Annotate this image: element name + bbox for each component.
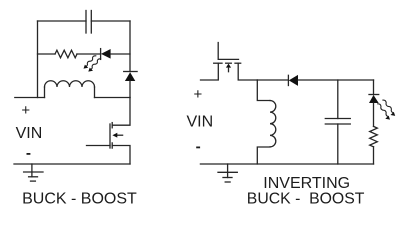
diode D3 (points left, on rail) <box>288 75 298 86</box>
inductor L1 <box>45 81 95 98</box>
wire: left circuit top rail (left of C1) <box>38 20 87 22</box>
Q1 drain segment tick <box>111 123 113 128</box>
svg-text:+: + <box>194 86 203 103</box>
inductor L2 (vertical) <box>257 80 276 164</box>
svg-text:+: + <box>21 102 30 119</box>
Q2 gate stub from top <box>218 43 238 60</box>
Q1 source lead <box>112 146 130 165</box>
label VIN- (left) <box>27 153 31 155</box>
LED D1 (points left) <box>101 49 111 60</box>
resistor R2 (vertical) <box>370 126 378 146</box>
Q1 gate bar <box>109 124 111 148</box>
wire: right circuit bottom rail <box>200 163 373 165</box>
ground (right circuit) <box>218 164 237 182</box>
Q1 body arrow <box>116 134 123 136</box>
wire: right vertical rail top (to diode cathode) <box>129 21 131 72</box>
Q2 source lead to VIN+ <box>201 63 219 80</box>
svg-text:BUCK - BOOST: BUCK - BOOST <box>22 190 137 207</box>
Q2 channel segment right <box>235 62 241 64</box>
svg-text:VIN: VIN <box>187 114 214 131</box>
Q2 channel segment left <box>214 62 222 64</box>
Q1 gate lead <box>87 145 111 147</box>
wire: left vertical rail <box>37 21 39 98</box>
wire: rail inductor junction to diode <box>257 79 288 81</box>
Q2 body arrow (up) <box>226 64 231 68</box>
resistor R1 <box>55 50 77 58</box>
wire: left circuit bottom rail <box>14 163 130 165</box>
wire: LED to resistor <box>373 103 375 126</box>
LED D4 (points up) <box>369 94 379 96</box>
wire: inductor to right rail <box>95 97 131 99</box>
diode D2 (points up, on right rail) <box>124 72 137 82</box>
svg-text:VIN: VIN <box>16 125 43 142</box>
capacitor C2 <box>325 80 350 164</box>
LED D1 emission arrows <box>84 56 101 72</box>
wire: diode to output corner <box>298 79 374 81</box>
wire: VIN+ stub into inductor row <box>15 97 45 99</box>
transistor Q2 (right circuit switch) <box>201 43 258 81</box>
LED D4 emission arrows <box>378 100 396 120</box>
wire: left circuit top rail (right of C1) <box>91 20 130 22</box>
Q1 drain lead <box>112 98 130 126</box>
Q1 source segment tick <box>111 143 113 148</box>
svg-text:BUCK - BOOST: BUCK - BOOST <box>247 190 365 207</box>
wire: resistor to bottom rail <box>373 147 375 164</box>
capacitor C1 <box>86 11 91 34</box>
Q2 channel segment middle <box>226 62 232 64</box>
wire: right rail diode to drain corner <box>129 81 131 98</box>
wire: top corner down to LED <box>373 80 375 95</box>
Q2 drain lead to rail <box>238 63 257 80</box>
label VIN- (right) <box>196 147 200 149</box>
ground (left circuit) <box>24 164 43 181</box>
LED D4 branch (right circuit output) <box>369 80 395 164</box>
wire: resistor to LED <box>77 53 101 55</box>
wire: feedback row left segment <box>38 53 56 55</box>
wire: LED to right rail <box>111 53 130 55</box>
transistor Q1 (NMOS) <box>87 98 131 165</box>
